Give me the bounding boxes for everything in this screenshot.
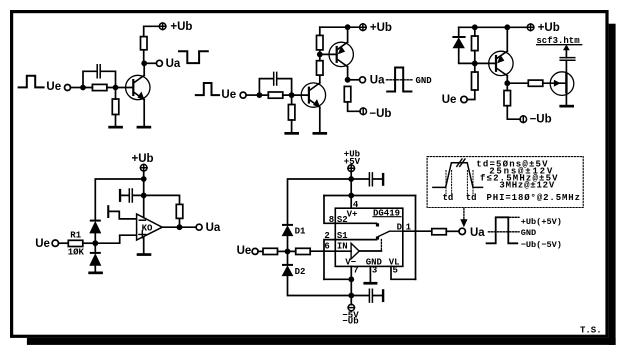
dotted GND level: [488, 231, 519, 233]
wire node to resistor to -Ub: [507, 83, 520, 119]
capacitor C speedup: [83, 65, 116, 88]
ground bar pin 3: [363, 282, 377, 285]
wire source down: [565, 92, 567, 105]
resistor R1: [68, 240, 83, 246]
svg-text:R1: R1: [70, 230, 81, 240]
svg-text:+Ub(+5V): +Ub(+5V): [521, 217, 562, 227]
op-amp U1 (KO comparator): [137, 214, 163, 240]
power +Ub terminal: [360, 24, 367, 31]
transistor Q3 (PNP): [329, 42, 353, 67]
wire node to resistor: [83, 87, 116, 89]
wire node to resistor: [259, 94, 291, 96]
wire top loop: [324, 195, 416, 197]
node junction 2: [113, 85, 119, 91]
wire cap to arrow: [565, 50, 567, 58]
resistor R gate: [528, 80, 543, 86]
diode D lower: [90, 252, 101, 266]
wire Ue to resistor: [258, 250, 263, 252]
power +Ub terminal: [527, 24, 534, 31]
svg-text:−Ub: −Ub: [530, 114, 552, 126]
svg-text:−Ub: −Ub: [342, 317, 358, 327]
Ue input pulse waveform: [19, 76, 44, 88]
power +Ub terminal: [140, 164, 147, 171]
svg-text:3: 3: [372, 266, 377, 276]
wire resistor to node: [278, 250, 288, 252]
node junction +5V: [348, 176, 354, 182]
Ue input pulse waveform: [196, 83, 219, 95]
switch contact S1: [376, 236, 379, 239]
wire base PNP: [475, 62, 495, 64]
arrow up to scf3.htm: [564, 45, 569, 50]
ground bar diode: [88, 272, 103, 275]
wire to Ua: [144, 62, 156, 64]
node junction rail: [141, 176, 147, 182]
node junction V-: [348, 276, 354, 282]
switch arm to D: [379, 231, 403, 236]
diode D clamp: [452, 36, 465, 48]
spec waveform break marks: [457, 159, 465, 166]
reference stub bar: [107, 205, 109, 218]
svg-text:5: 5: [393, 266, 398, 276]
wire base: [116, 87, 133, 89]
wire resistor to -Ub: [348, 102, 361, 111]
wire top rail: [320, 26, 360, 28]
svg-text:Ue: Ue: [46, 81, 61, 93]
diode D1: [282, 224, 293, 236]
ground bar emitter: [313, 132, 328, 135]
ground bar base resistor: [108, 126, 123, 129]
svg-text:+Ub: +Ub: [132, 153, 154, 165]
wire Ue to node: [71, 87, 84, 89]
wire pin 5 to VL loop: [391, 266, 416, 279]
frame shadow right: [609, 24, 616, 345]
svg-text:Ua: Ua: [206, 222, 221, 234]
wire collector down: [506, 76, 508, 84]
node output junction: [177, 224, 183, 230]
svg-text:V+: V+: [347, 209, 358, 219]
node Ua junction: [345, 77, 351, 83]
wire Ue to R1: [59, 242, 69, 244]
resistor R base-bleed: [288, 105, 295, 121]
wire resistor to rail: [319, 27, 321, 35]
svg-text:td: td: [466, 193, 477, 203]
svg-text:GND: GND: [521, 228, 536, 238]
diode D upper: [90, 220, 101, 233]
wire S1 to V- loop: [324, 240, 377, 280]
dotted control link: [380, 240, 382, 252]
resistor R output: [432, 229, 447, 235]
resistor R base: [92, 84, 107, 90]
wire base PNP: [320, 53, 336, 55]
power +5V terminal: [348, 165, 355, 172]
svg-text:Ue: Ue: [237, 245, 252, 257]
resistor R upper: [317, 35, 324, 50]
wire cap junction to pullup: [144, 195, 180, 204]
wire node2 to resistor to ground: [115, 88, 117, 126]
svg-text:Ua: Ua: [370, 74, 385, 86]
svg-text:Ua: Ua: [166, 58, 181, 70]
terminal Ue (open circle): [252, 248, 258, 254]
power +Ub terminal: [159, 23, 166, 30]
wire top rail: [459, 26, 528, 28]
svg-text:3MHz@±12V: 3MHz@±12V: [499, 181, 555, 191]
wire drain up: [565, 60, 567, 74]
svg-text:−Ub: −Ub: [369, 108, 391, 120]
terminal Ue (open circle): [240, 92, 246, 98]
underline DG419: [373, 216, 401, 218]
node junction input: [92, 240, 98, 246]
wire pin 7: [350, 266, 352, 279]
wire emitter NPN down: [319, 107, 321, 132]
wire VL loop right: [415, 196, 417, 280]
wire rail to diode: [458, 27, 460, 36]
spec waveform trapezoid: [433, 163, 483, 188]
IC U2 DG419 body: [335, 208, 403, 266]
wire - input stub: [109, 211, 136, 219]
wire buffer output to switch: [359, 250, 381, 252]
node junction input: [285, 249, 291, 255]
node junction base PNP: [317, 52, 323, 58]
svg-text:D: D: [397, 223, 403, 233]
svg-text:+Ub: +Ub: [370, 22, 392, 34]
wire node2 to resistor to ground: [291, 95, 293, 132]
wire -5V rail to D2: [288, 276, 352, 296]
output legend pulse waveform: [487, 217, 518, 243]
wire collector to resistor chain: [319, 75, 321, 83]
dotted +Ub level: [510, 216, 520, 218]
svg-text:−Ub(−5V): −Ub(−5V): [521, 240, 562, 250]
node junction 2: [289, 92, 295, 98]
wire diode to node: [94, 233, 96, 243]
ground bar FET source: [559, 105, 574, 108]
svg-text:+Ub: +Ub: [170, 21, 192, 33]
svg-text:T.S.: T.S.: [580, 326, 602, 336]
wire pullup to output: [179, 218, 181, 227]
spec dotted td markers: [446, 171, 473, 197]
node junction -5V: [348, 293, 354, 299]
underline scf3.htm: [537, 44, 582, 46]
resistor R pullup: [176, 204, 183, 218]
wire D1 to node: [287, 236, 289, 252]
node junction: [80, 85, 86, 91]
svg-text:PHI=18Ø°@2.5MHz: PHI=18Ø°@2.5MHz: [487, 193, 581, 203]
capacitor C speedup: [259, 72, 291, 95]
spec box (dashed): [427, 157, 583, 208]
wire D2 node: [287, 251, 289, 264]
wire pin 3 to ground: [369, 266, 371, 282]
wire + input: [95, 235, 136, 243]
wire node to resistor to Ue: [467, 63, 475, 99]
power -Ub terminal: [520, 116, 527, 123]
svg-text:td: td: [443, 193, 454, 203]
resistor R bias lower: [472, 72, 479, 90]
resistor R collector load: [504, 91, 511, 106]
terminal Ua (open circle): [156, 60, 162, 66]
svg-text:+Ub: +Ub: [538, 22, 560, 34]
svg-text:6: 6: [324, 242, 329, 252]
svg-text:GND: GND: [416, 76, 433, 86]
transistor Q2 (NPN): [301, 83, 325, 107]
node junction rail: [345, 24, 351, 30]
diode D2: [282, 264, 293, 276]
wire collector to Ua node: [347, 67, 349, 80]
resistor R base-bleed: [112, 99, 119, 115]
capacitor C decouple bottom: [351, 289, 384, 302]
frame shadow bottom: [27, 338, 616, 345]
svg-text:IN: IN: [337, 242, 348, 252]
node collector junction: [141, 60, 147, 66]
wire V- loop: [324, 278, 351, 280]
terminal Ue (open circle): [52, 240, 58, 246]
transistor Q5 (FET): [550, 72, 574, 96]
wire V- down: [350, 279, 352, 295]
wire junction down: [350, 179, 352, 196]
node collector junction: [504, 80, 510, 86]
arrowhead to Ua: [461, 220, 467, 227]
resistor R collector: [141, 37, 148, 50]
wire V- pin to ground: [143, 237, 145, 254]
wire diode to ground: [94, 243, 96, 271]
svg-text:Ue: Ue: [221, 89, 236, 101]
wire emitter to rail: [506, 27, 508, 51]
svg-text:Ue: Ue: [442, 94, 457, 106]
wire diode to node: [459, 48, 475, 64]
terminal Ue (open circle): [65, 85, 71, 91]
wire resistor to Ua: [446, 230, 459, 232]
terminal Ua (open circle): [459, 228, 465, 234]
wire +Ub down: [143, 171, 145, 179]
wire emitter to rail: [347, 27, 349, 42]
resistor R input left: [263, 248, 278, 254]
transistor Q4 (PNP): [489, 51, 513, 76]
resistor R base: [268, 92, 283, 98]
svg-text:Ua: Ua: [470, 227, 485, 239]
resistor R input right: [296, 248, 311, 254]
wire to gate resistor: [507, 82, 528, 84]
svg-text:D1: D1: [295, 227, 306, 237]
svg-text:7: 7: [353, 266, 358, 276]
capacitor C decouple top: [351, 173, 384, 186]
wire rail left and down to diodes: [95, 179, 143, 220]
power -5V terminal: [348, 304, 354, 310]
node junction V+: [348, 193, 354, 199]
node junction rail right: [504, 24, 510, 30]
wire collector up: [143, 63, 145, 75]
capacitor C decouple: [119, 189, 144, 202]
wire +5V rail to D1: [288, 179, 352, 224]
wire resistor to rail: [144, 26, 160, 63]
power -Ub terminal: [360, 108, 367, 115]
wire rail to resistor to node: [474, 27, 476, 63]
wire V+ pin: [143, 195, 145, 217]
terminal Ue (open circle): [461, 96, 467, 102]
wire junction to -5V terminal: [350, 296, 352, 305]
ground bar op-amp: [137, 253, 152, 256]
resistor R bias upper: [472, 36, 479, 51]
wire pin 4: [350, 196, 352, 209]
wire Ue to node: [246, 94, 259, 96]
svg-text:D2: D2: [295, 267, 306, 277]
wire S2 loop left: [324, 196, 377, 224]
switch contact S2: [376, 223, 379, 226]
wire junction down: [143, 179, 145, 195]
resistor R pulldown: [344, 86, 351, 102]
transistor Q1 (NPN): [126, 75, 150, 99]
wire node to resistor to IN pin: [288, 250, 352, 252]
dotted arrow from spec box: [463, 209, 465, 220]
wire to Ua: [348, 79, 360, 81]
ground bar emitter: [137, 126, 152, 129]
terminal Ua (open circle): [360, 77, 366, 83]
wire resistor to gate: [543, 82, 567, 84]
ground bar base resistor: [284, 132, 299, 135]
wire between resistors: [319, 50, 321, 61]
node junction cap: [141, 193, 147, 199]
wire D output: [403, 230, 432, 232]
driver buffer triangle: [351, 243, 359, 259]
wire output: [162, 226, 196, 228]
Ua output inverted pulse waveform: [179, 51, 208, 63]
svg-text:KO: KO: [142, 223, 153, 233]
terminal Ua (open circle): [196, 224, 202, 230]
wire emitter down: [143, 100, 145, 126]
dotted GND reference line: [387, 79, 413, 81]
Ua output pulse waveform: [387, 68, 411, 92]
wire terminal to junction: [350, 172, 352, 180]
capacitor C drain: [560, 58, 575, 61]
svg-text:1ØK: 1ØK: [68, 248, 85, 258]
svg-text:Ue: Ue: [35, 238, 50, 250]
wire R1 to node: [83, 242, 96, 244]
node junction base: [472, 61, 478, 67]
node junction: [257, 92, 263, 98]
node junction rail left: [472, 24, 478, 30]
wire base: [292, 94, 308, 96]
resistor R lower: [317, 61, 324, 75]
